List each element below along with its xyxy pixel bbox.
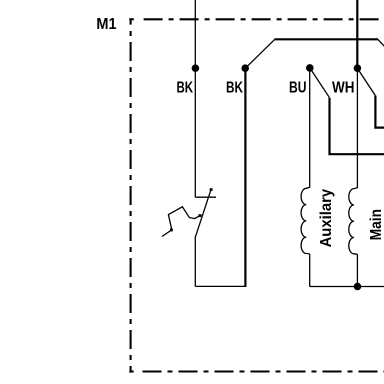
wire BK2 thick vertical [244, 68, 246, 286]
node coil common junction dot [354, 283, 362, 291]
wire diagonal from BU node [310, 68, 330, 98]
thermal squiggle dot [170, 229, 173, 232]
node BU junction dot [306, 64, 314, 72]
node BK2 junction dot [241, 64, 249, 72]
wire lower switch vertical [194, 236, 196, 286]
inductor main winding coil [349, 188, 358, 254]
wire bottom right horizontal [310, 286, 384, 288]
wire thick L from WH branch [375, 96, 384, 128]
switch blade tip dot [210, 188, 213, 191]
thermal protector squiggle [162, 207, 202, 237]
node BK1 junction dot [192, 64, 200, 72]
node WH junction dot [354, 64, 362, 72]
svg-text:M1: M1 [96, 16, 116, 33]
wire top right diagonal off edge [378, 39, 384, 47]
switch blade [196, 190, 211, 237]
wire main coil bottom [356, 254, 358, 286]
switch fixed contact tick [195, 196, 216, 198]
wire bottom left horizontal [195, 285, 246, 287]
wire auxiliary coil bottom [309, 254, 311, 287]
svg-text:BK: BK [226, 79, 243, 96]
svg-text:WH: WH [332, 79, 355, 96]
wire BU node to auxiliary coil [309, 68, 311, 188]
inductor auxiliary winding coil [301, 187, 310, 254]
svg-text:BU: BU [289, 79, 307, 96]
svg-text:Main: Main [368, 209, 384, 240]
wire WH lead thick vertical [356, 0, 358, 68]
motor boundary M1 dash-dot border [129, 18, 384, 372]
wire BK1 lead vertical [194, 0, 196, 197]
svg-text:Auxilary: Auxilary [318, 188, 335, 247]
wire diagonal from BK2 node [245, 39, 275, 68]
wire WH node to main coil [356, 68, 358, 187]
wire diagonal from WH node [357, 68, 375, 95]
wire thick L from BU branch [330, 98, 384, 155]
wire top horizontal thick [275, 38, 379, 40]
svg-text:BK: BK [177, 79, 194, 96]
thermal squiggle to blade joint dot [199, 214, 202, 217]
